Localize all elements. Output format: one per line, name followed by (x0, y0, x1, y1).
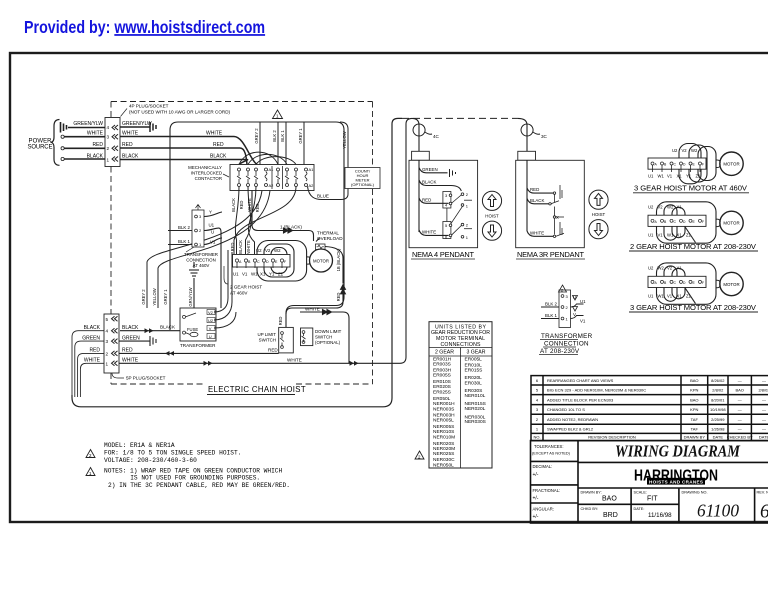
svg-text:WHITE: WHITE (287, 357, 302, 362)
svg-text:ER025S: ER025S (433, 389, 451, 395)
svg-text:RED: RED (230, 243, 235, 252)
svg-text:Z1: Z1 (686, 233, 692, 238)
svg-text:U: U (211, 230, 214, 235)
svg-text:BLACK: BLACK (238, 240, 243, 254)
svg-text:SWITCH: SWITCH (315, 335, 332, 340)
svg-text:OVERLOAD: OVERLOAD (317, 236, 343, 241)
svg-text:U1: U1 (580, 299, 586, 304)
svg-text:INTERLOCKED: INTERLOCKED (191, 171, 222, 176)
svg-text:3: 3 (536, 407, 539, 412)
svg-text:—: — (738, 397, 742, 402)
svg-text:SOURCE: SOURCE (28, 145, 53, 151)
svg-text:GREY 2: GREY 2 (254, 128, 259, 144)
svg-text:RED: RED (255, 204, 260, 213)
svg-text:Y1: Y1 (677, 266, 683, 271)
svg-text:NER020L: NER020L (465, 406, 486, 412)
svg-text:ELECTRIC CHAIN HOIST: ELECTRIC CHAIN HOIST (208, 385, 306, 394)
svg-text:F: F (702, 281, 704, 285)
svg-text:WHITE: WHITE (530, 230, 544, 235)
svg-text:—: — (762, 397, 766, 402)
svg-text:61100: 61100 (697, 501, 739, 521)
svg-text:—: — (738, 417, 742, 422)
svg-text:—: — (738, 378, 742, 383)
svg-text:BIG ECN 329 - ADD NER010M, NER: BIG ECN 329 - ADD NER010M, NER020M & NER… (547, 388, 646, 393)
svg-text:U1: U1 (209, 223, 215, 228)
svg-text:U2: U2 (648, 266, 654, 271)
svg-text:V1: V1 (667, 174, 673, 179)
svg-text:WHITE: WHITE (247, 198, 252, 212)
svg-text:(OPTIONAL): (OPTIONAL) (315, 340, 341, 345)
svg-text:MODEL: ER1A & NER1A: MODEL: ER1A & NER1A (104, 442, 175, 449)
svg-text:ANGULAR:: ANGULAR: (533, 507, 554, 512)
svg-text:BLK 2: BLK 2 (178, 225, 191, 230)
svg-text:RED: RED (530, 187, 539, 192)
svg-text:Z1: Z1 (278, 272, 284, 277)
svg-text:1: 1 (536, 427, 539, 432)
svg-text:GREEN: GREEN (82, 336, 100, 342)
svg-text:A1: A1 (269, 167, 275, 172)
svg-text:CHECKED BY: CHECKED BY (727, 435, 753, 440)
svg-text:ER003S: ER003S (433, 362, 451, 368)
svg-text:1: 1 (106, 361, 109, 366)
svg-text:WHITE: WHITE (84, 358, 101, 364)
svg-text:D: D (266, 260, 269, 264)
svg-text:NER005S: NER005S (433, 424, 454, 430)
svg-text:ER030S: ER030S (465, 388, 483, 394)
svg-text:AT 208-230V: AT 208-230V (540, 348, 580, 355)
svg-text:(OPTIONAL): (OPTIONAL) (351, 182, 375, 187)
svg-text:TRANSFORMER: TRANSFORMER (541, 333, 593, 340)
svg-text:BLACK: BLACK (422, 180, 436, 185)
svg-text:DATE: DATE (759, 435, 768, 440)
svg-text:5: 5 (536, 388, 539, 393)
svg-text:V1: V1 (667, 294, 673, 299)
svg-text:V1: V1 (580, 319, 586, 324)
svg-text:BLACK: BLACK (160, 325, 176, 330)
svg-text:DOWN LIMIT: DOWN LIMIT (315, 329, 342, 334)
svg-text:MECHANICALLY: MECHANICALLY (188, 165, 222, 170)
svg-text:3 GEAR: 3 GEAR (466, 350, 485, 356)
svg-text:MOTOR: MOTOR (313, 258, 329, 263)
svg-text:NER015S: NER015S (465, 401, 486, 407)
svg-text:REV. N: REV. N (757, 491, 768, 495)
svg-text:BAO: BAO (690, 397, 698, 402)
svg-text:BAO: BAO (690, 378, 698, 383)
svg-text:ER020S: ER020S (433, 384, 451, 390)
svg-text:GREY 1: GREY 1 (298, 128, 303, 144)
svg-text:—: — (762, 417, 766, 422)
svg-text:V: V (573, 312, 576, 317)
svg-text:HOISTS AND CRANES: HOISTS AND CRANES (649, 479, 703, 484)
svg-text:NER050L: NER050L (433, 462, 454, 468)
svg-text:X: X (556, 215, 559, 220)
svg-text:U2: U2 (208, 318, 214, 323)
svg-text:BLACK: BLACK (87, 154, 104, 160)
svg-text:BLACK: BLACK (210, 154, 227, 160)
svg-text:Y1: Y1 (686, 174, 692, 179)
svg-text:WHITE: WHITE (122, 358, 139, 364)
svg-text:5P PLUG/SOCKET: 5P PLUG/SOCKET (126, 376, 166, 381)
svg-text:BLACK: BLACK (122, 325, 139, 331)
svg-text:NER005L: NER005L (433, 417, 454, 423)
svg-text:X1: X1 (677, 294, 683, 299)
svg-text:F: F (702, 220, 704, 224)
svg-text:W2: W2 (658, 266, 665, 271)
svg-text:RED: RED (336, 293, 341, 302)
svg-text:RED: RED (89, 348, 100, 354)
svg-text:—: — (738, 427, 742, 432)
svg-text:NER030C: NER030C (433, 457, 455, 463)
svg-text:BLACK: BLACK (530, 198, 544, 203)
svg-text:RED: RED (268, 348, 278, 353)
svg-text:YELLOW: YELLOW (152, 288, 157, 306)
svg-text:—: — (762, 427, 766, 432)
svg-text:3: 3 (106, 339, 109, 344)
svg-text:V1: V1 (658, 233, 664, 238)
svg-text:NER010S: NER010S (433, 429, 454, 435)
svg-text:WHITE: WHITE (122, 131, 139, 137)
svg-text:2/8/02: 2/8/02 (712, 388, 724, 393)
svg-text:ER001H: ER001H (433, 356, 452, 362)
svg-text:(EXCEPT AS NOTED): (EXCEPT AS NOTED) (532, 452, 571, 456)
svg-text:2 GEAR HOIST MOTOR AT 208-230V: 2 GEAR HOIST MOTOR AT 208-230V (630, 242, 757, 251)
svg-text:REVISION DESCRIPTION: REVISION DESCRIPTION (588, 435, 636, 440)
svg-text:VOLTAGE: 208-230/460-3-60: VOLTAGE: 208-230/460-3-60 (104, 457, 197, 464)
svg-text:CHKD BY:: CHKD BY: (581, 507, 599, 511)
svg-text:U2: U2 (256, 248, 262, 253)
svg-text:THERMAL: THERMAL (317, 231, 339, 236)
svg-text:2/25/99: 2/25/99 (711, 417, 725, 422)
svg-text:TOLERANCES:: TOLERANCES: (534, 444, 563, 449)
svg-text:BLK 1: BLK 1 (280, 130, 285, 142)
svg-text:V2: V2 (265, 248, 271, 253)
svg-text:SWAPPED BLK2 & GRL2: SWAPPED BLK2 & GRL2 (547, 427, 594, 432)
svg-text:DECIMAL:: DECIMAL: (533, 464, 553, 469)
svg-text:4P PLUG/SOCKET: 4P PLUG/SOCKET (129, 104, 169, 109)
svg-text:BAO: BAO (602, 496, 617, 503)
svg-text:YELLOW: YELLOW (342, 131, 347, 149)
svg-text:WHITE: WHITE (206, 131, 223, 137)
svg-text:ER050L: ER050L (433, 396, 451, 402)
svg-text:BRD: BRD (603, 512, 618, 519)
svg-text:RED: RED (122, 142, 133, 148)
svg-text:3 GEAR HOIST MOTOR AT 208-230V: 3 GEAR HOIST MOTOR AT 208-230V (630, 303, 757, 312)
svg-text:V2: V2 (658, 205, 664, 210)
svg-text:U2: U2 (648, 205, 654, 210)
svg-text:BLACK: BLACK (84, 325, 101, 331)
svg-text:—: — (762, 378, 766, 383)
svg-text:3 GEAR HOIST MOTOR AT 460V: 3 GEAR HOIST MOTOR AT 460V (634, 184, 748, 193)
svg-text:W1: W1 (658, 294, 665, 299)
svg-text:4C: 4C (433, 134, 440, 139)
svg-text:V1: V1 (210, 240, 216, 245)
svg-text:DATE:: DATE: (634, 507, 645, 511)
svg-text:TAF: TAF (691, 427, 699, 432)
svg-text:U1: U1 (648, 294, 654, 299)
svg-text:GREEN/YLW: GREEN/YLW (73, 121, 103, 127)
svg-text:CHANGED 10L TO S: CHANGED 10L TO S (547, 407, 585, 412)
svg-text:NER020M: NER020M (433, 446, 455, 452)
svg-text:+/-: +/- (533, 472, 539, 478)
svg-text:RED: RED (239, 201, 244, 210)
svg-text:U1: U1 (648, 233, 654, 238)
svg-text:AT 460V: AT 460V (193, 263, 210, 268)
svg-text:KPN: KPN (690, 407, 698, 412)
svg-text:DATE: DATE (713, 435, 724, 440)
svg-text:V: V (209, 326, 212, 331)
svg-text:NER020S: NER020S (433, 441, 454, 447)
svg-text:WHITE: WHITE (246, 240, 251, 254)
svg-text:REARRANGED CHART AND VIEWS: REARRANGED CHART AND VIEWS (547, 378, 614, 383)
svg-text:ER020L: ER020L (465, 375, 483, 381)
svg-text:AT 460V: AT 460V (230, 291, 248, 296)
svg-text:X1: X1 (260, 272, 266, 277)
svg-text:ER015S: ER015S (465, 368, 483, 374)
svg-text:SCALE:: SCALE: (634, 491, 648, 495)
svg-text:—: — (762, 407, 766, 412)
svg-text:Y: Y (209, 210, 212, 215)
svg-text:10/19/98: 10/19/98 (710, 407, 726, 412)
svg-text:1: 1 (276, 114, 279, 119)
svg-text:DRAWN BY:: DRAWN BY: (581, 491, 602, 495)
svg-text:CONNECTION: CONNECTION (544, 341, 589, 348)
svg-text:TAF: TAF (691, 417, 699, 422)
svg-text:UP LIMIT: UP LIMIT (258, 332, 277, 337)
svg-text:3C: 3C (541, 134, 548, 139)
svg-text:+/-: +/- (533, 514, 539, 520)
svg-text:HOIST: HOIST (592, 212, 606, 217)
svg-text:A2: A2 (269, 183, 275, 188)
svg-text:2 GEAR HOIST: 2 GEAR HOIST (230, 285, 262, 290)
svg-text:ER005S: ER005S (433, 373, 451, 379)
svg-text:W1: W1 (667, 233, 674, 238)
svg-text:W2: W2 (274, 248, 281, 253)
svg-text:X1: X1 (677, 233, 683, 238)
svg-text:W1: W1 (251, 272, 258, 277)
svg-text:4: 4 (536, 397, 539, 402)
svg-text:3: 3 (107, 135, 110, 140)
svg-text:CONNECTION: CONNECTION (186, 258, 216, 263)
svg-text:TRANSFORMER: TRANSFORMER (184, 252, 218, 257)
svg-text:CONTACTOR: CONTACTOR (195, 176, 222, 181)
svg-text:2/8/02: 2/8/02 (758, 388, 768, 393)
svg-text:Z1: Z1 (686, 294, 692, 299)
svg-text:BLK 1: BLK 1 (545, 313, 558, 318)
svg-text:6: 6 (536, 378, 539, 383)
svg-text:DRAWN BY: DRAWN BY (684, 435, 706, 440)
svg-text:2) IN THE 3C PENDANT CABLE, RE: 2) IN THE 3C PENDANT CABLE, RED MAY BE G… (108, 482, 290, 489)
svg-text:TRANSFORMER: TRANSFORMER (180, 343, 216, 348)
svg-text:ADDED TITLE BLOCK PER ECN303: ADDED TITLE BLOCK PER ECN303 (547, 397, 614, 402)
svg-text:NER025S: NER025S (433, 451, 454, 457)
svg-text:BLUE: BLUE (317, 194, 329, 199)
svg-text:BLACK: BLACK (122, 154, 139, 160)
svg-text:ER003H: ER003H (433, 368, 452, 374)
svg-text:FUSE: FUSE (187, 327, 198, 332)
svg-text:ER010S: ER010S (433, 379, 451, 385)
svg-text:V2: V2 (667, 266, 673, 271)
svg-text:U: U (209, 334, 212, 339)
svg-text:WIRING DIAGRAM: WIRING DIAGRAM (615, 442, 741, 461)
svg-text:NEMA 3R PENDANT: NEMA 3R PENDANT (517, 250, 584, 259)
svg-text:GREEN/YLW: GREEN/YLW (122, 121, 152, 127)
svg-text:NOTES: 1) WRAP RED TAPE ON GRE: NOTES: 1) WRAP RED TAPE ON GREEN CONDUCT… (104, 467, 283, 474)
svg-text:U1: U1 (233, 272, 239, 277)
svg-text:A1: A1 (309, 167, 315, 172)
svg-text:ER010L: ER010L (465, 362, 483, 368)
svg-text:FRACTIONAL:: FRACTIONAL: (533, 488, 561, 493)
svg-text:NER003H: NER003H (433, 412, 455, 418)
svg-text:8/26/02: 8/26/02 (711, 378, 725, 383)
svg-text:U: U (573, 295, 576, 300)
svg-text:V2: V2 (682, 148, 688, 153)
svg-text:V1: V1 (242, 272, 248, 277)
svg-text:Y1: Y1 (269, 272, 275, 277)
svg-text:2 GEAR: 2 GEAR (435, 350, 454, 356)
svg-text:MOTOR: MOTOR (723, 221, 739, 226)
svg-text:1: 1 (107, 158, 110, 163)
svg-text:2: 2 (106, 351, 109, 356)
svg-text:(NOT USED WITH 10 AWG OR LARGE: (NOT USED WITH 10 AWG OR LARGER CORD) (129, 110, 231, 115)
svg-text:GREY 2: GREY 2 (141, 289, 146, 305)
svg-text:KPN: KPN (690, 388, 698, 393)
svg-text:Z1: Z1 (696, 174, 702, 179)
svg-text:GRN/YLW: GRN/YLW (188, 287, 193, 306)
svg-text:WHITE: WHITE (305, 307, 320, 312)
svg-text:1 (BLACK): 1 (BLACK) (280, 225, 302, 230)
svg-text:NER030S: NER030S (465, 419, 486, 425)
svg-text:V2: V2 (208, 310, 214, 315)
svg-text:11/16/98: 11/16/98 (648, 512, 672, 519)
svg-text:Y1: Y1 (677, 205, 683, 210)
svg-text:BLK 1: BLK 1 (178, 239, 191, 244)
svg-text:SWITCH: SWITCH (259, 338, 276, 343)
svg-text:8/20/01: 8/20/01 (711, 397, 725, 402)
svg-text:BLK 2: BLK 2 (272, 130, 277, 142)
svg-text:NEMA 4 PENDANT: NEMA 4 PENDANT (412, 250, 474, 259)
svg-text:DRAWING NO.: DRAWING NO. (682, 491, 708, 495)
svg-text:RED: RED (213, 142, 224, 148)
svg-text:RED: RED (92, 142, 103, 148)
svg-text:ER030L: ER030L (465, 380, 483, 386)
svg-text:BLK 2: BLK 2 (545, 302, 558, 307)
svg-text:RED: RED (278, 317, 283, 326)
svg-text:POWER: POWER (29, 139, 53, 145)
svg-text:Provided by: www.hoistsdirect.: Provided by: www.hoistsdirect.com (24, 19, 265, 38)
svg-text:—: — (738, 407, 742, 412)
svg-text:MOTOR: MOTOR (723, 162, 739, 167)
svg-text:RED: RED (422, 198, 431, 203)
svg-text:U1: U1 (648, 174, 654, 179)
svg-text:NER010M: NER010M (433, 434, 455, 440)
svg-text:WHITE: WHITE (87, 131, 104, 137)
svg-text:2: 2 (536, 417, 539, 422)
svg-text:W2: W2 (667, 205, 674, 210)
svg-text:W1: W1 (658, 174, 665, 179)
svg-text:ADDED NOTE2, REDRAWN: ADDED NOTE2, REDRAWN (547, 417, 598, 422)
svg-text:NER003S: NER003S (433, 407, 454, 413)
svg-text:IS NOT USED FOR GROUNDING PURP: IS NOT USED FOR GROUNDING PURPOSES. (130, 475, 260, 482)
svg-text:2: 2 (107, 146, 110, 151)
svg-text:W2: W2 (691, 148, 698, 153)
svg-text:C: C (257, 260, 260, 264)
svg-text:MOTOR: MOTOR (723, 282, 739, 287)
svg-text:4: 4 (107, 125, 110, 130)
svg-text:U2: U2 (672, 148, 678, 153)
svg-text:NER010L: NER010L (465, 393, 486, 399)
svg-text:FOR: 1/8 TO 5 TON SINGLE SPEED: FOR: 1/8 TO 5 TON SINGLE SPEED HOIST. (104, 449, 241, 456)
svg-text:GREEN: GREEN (422, 167, 438, 172)
svg-text:5: 5 (106, 317, 109, 322)
svg-text:F: F (702, 163, 704, 167)
svg-text:X1: X1 (677, 174, 683, 179)
svg-text:WHITE: WHITE (422, 230, 436, 235)
svg-text:FIT: FIT (647, 496, 658, 503)
svg-text:1/26/98: 1/26/98 (711, 427, 725, 432)
svg-text:6: 6 (760, 502, 768, 523)
svg-text:NER001H: NER001H (433, 401, 455, 407)
svg-text:+/-: +/- (533, 496, 539, 502)
svg-text:GREY 1: GREY 1 (163, 289, 168, 305)
svg-text:1B (BLACK): 1B (BLACK) (336, 248, 341, 271)
svg-text:4: 4 (106, 329, 109, 334)
svg-text:BAO: BAO (735, 388, 743, 393)
svg-text:HOIST: HOIST (485, 214, 499, 219)
svg-text:ER005L: ER005L (465, 356, 483, 362)
svg-text:RED: RED (122, 348, 133, 354)
svg-text:A2: A2 (309, 183, 315, 188)
svg-text:BLACK: BLACK (231, 198, 236, 212)
svg-text:NO.: NO. (533, 435, 540, 440)
